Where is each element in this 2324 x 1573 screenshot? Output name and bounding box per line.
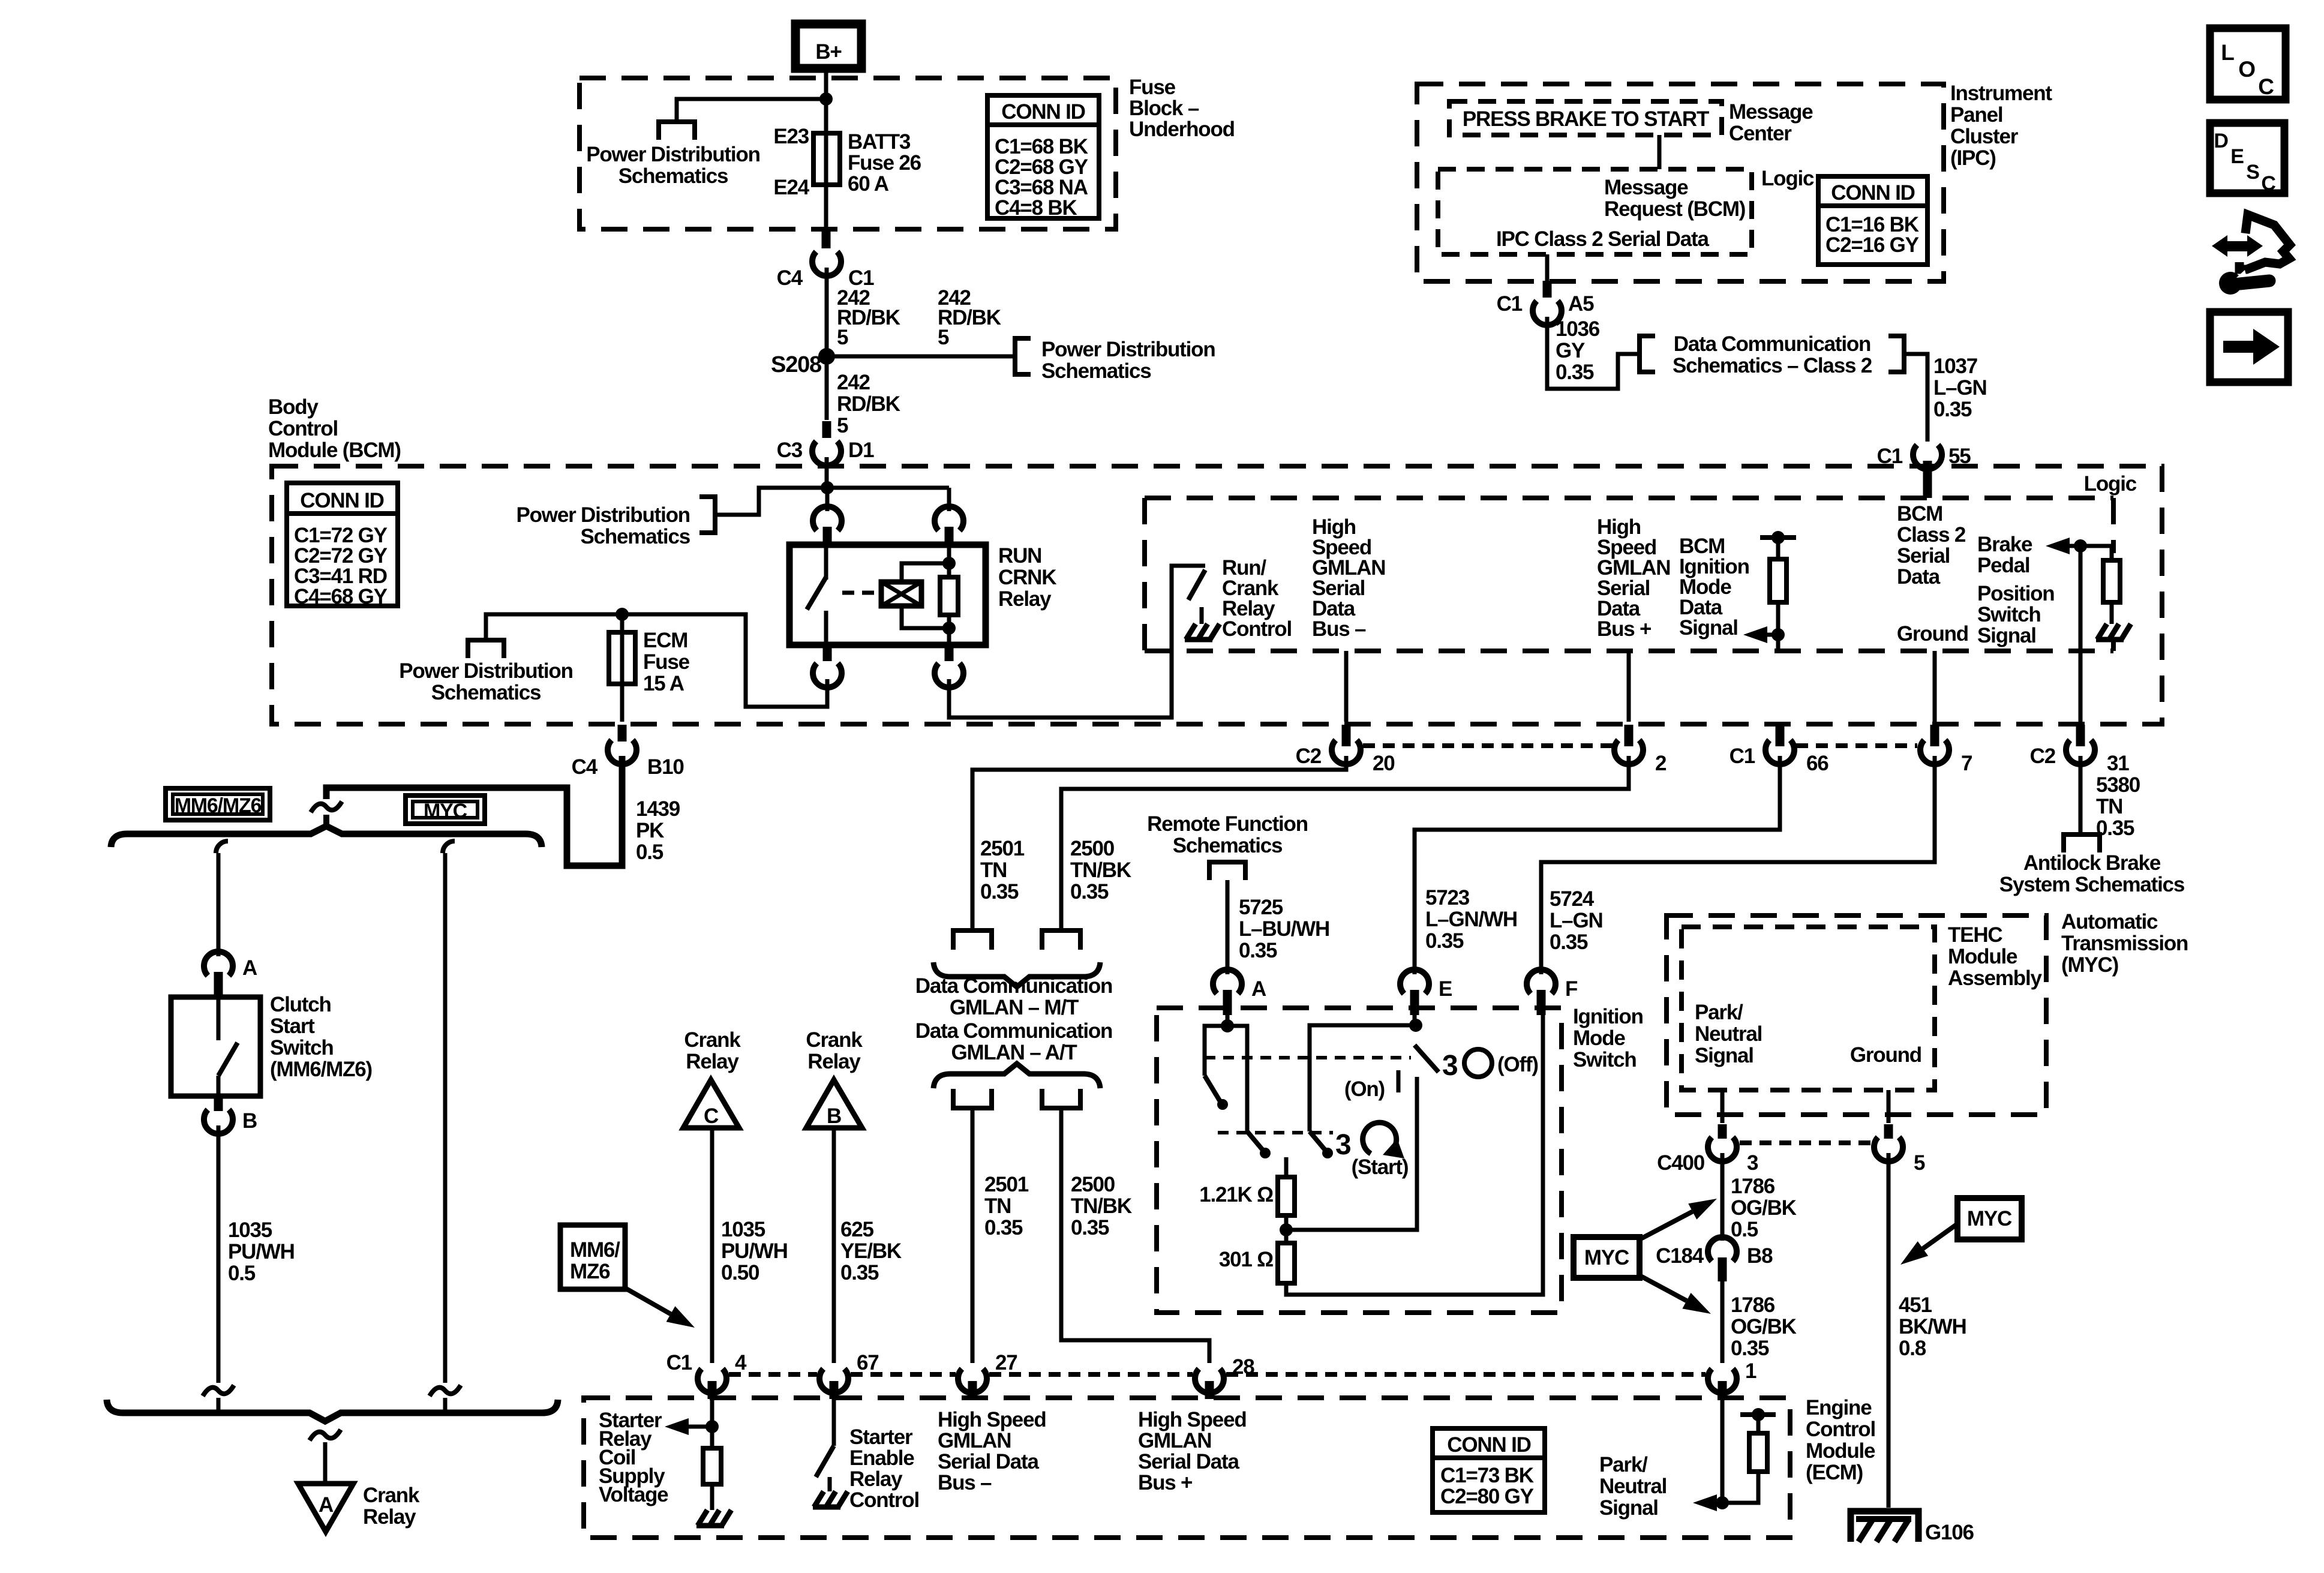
svg-text:Schematics: Schematics bbox=[431, 681, 541, 704]
svg-text:High Speed: High Speed bbox=[938, 1408, 1046, 1431]
svg-text:Power Distribution: Power Distribution bbox=[1041, 338, 1215, 361]
svg-text:15 A: 15 A bbox=[643, 672, 684, 695]
svg-text:C4=68 GY: C4=68 GY bbox=[294, 585, 388, 608]
svg-text:Panel: Panel bbox=[1950, 103, 2002, 127]
svg-text:Data Communication: Data Communication bbox=[1674, 332, 1870, 356]
svg-text:(MYC): (MYC) bbox=[2061, 953, 2118, 977]
svg-text:Signal: Signal bbox=[1679, 616, 1738, 640]
svg-text:Mode: Mode bbox=[1573, 1026, 1625, 1050]
svg-text:Automatic: Automatic bbox=[2061, 910, 2158, 933]
svg-text:B+: B+ bbox=[815, 40, 842, 64]
svg-text:BATT3: BATT3 bbox=[848, 130, 911, 154]
svg-text:Crank: Crank bbox=[684, 1028, 741, 1052]
svg-text:GY: GY bbox=[1556, 339, 1585, 362]
svg-text:Serial Data: Serial Data bbox=[938, 1450, 1039, 1473]
svg-text:5723: 5723 bbox=[1425, 886, 1470, 909]
svg-text:Module: Module bbox=[1806, 1439, 1875, 1463]
svg-text:C: C bbox=[2258, 74, 2274, 99]
svg-text:C2: C2 bbox=[1296, 745, 1322, 768]
svg-text:TN: TN bbox=[980, 858, 1007, 882]
svg-text:3: 3 bbox=[1442, 1050, 1458, 1082]
svg-text:Serial: Serial bbox=[1897, 544, 1950, 568]
svg-text:1.21K Ω: 1.21K Ω bbox=[1199, 1183, 1273, 1206]
svg-text:0.5: 0.5 bbox=[1731, 1218, 1758, 1241]
svg-text:A: A bbox=[1251, 977, 1266, 1001]
svg-text:(IPC): (IPC) bbox=[1950, 146, 1996, 170]
svg-text:Remote Function: Remote Function bbox=[1147, 812, 1308, 836]
svg-text:S208: S208 bbox=[771, 352, 821, 377]
svg-text:0.5: 0.5 bbox=[228, 1262, 256, 1285]
svg-text:0.35: 0.35 bbox=[1550, 930, 1588, 954]
svg-text:High Speed: High Speed bbox=[1138, 1408, 1247, 1431]
svg-text:Engine: Engine bbox=[1806, 1396, 1872, 1419]
svg-text:Position: Position bbox=[1977, 582, 2054, 605]
svg-text:ECM: ECM bbox=[643, 629, 687, 652]
svg-text:Bus +: Bus + bbox=[1138, 1471, 1193, 1494]
svg-text:242: 242 bbox=[837, 371, 870, 394]
svg-text:Data Communication: Data Communication bbox=[915, 1019, 1112, 1043]
svg-text:TN/BK: TN/BK bbox=[1071, 1194, 1132, 1218]
svg-text:7: 7 bbox=[1961, 752, 1972, 775]
svg-text:0.8: 0.8 bbox=[1899, 1337, 1926, 1360]
svg-text:0.35: 0.35 bbox=[1425, 929, 1464, 953]
svg-text:Ground: Ground bbox=[1850, 1043, 1921, 1067]
svg-text:1786: 1786 bbox=[1731, 1293, 1775, 1317]
svg-text:RD/BK: RD/BK bbox=[837, 392, 900, 416]
svg-text:0.35: 0.35 bbox=[984, 1216, 1023, 1239]
svg-text:TN: TN bbox=[984, 1194, 1011, 1218]
svg-text:C1: C1 bbox=[1730, 745, 1755, 768]
svg-text:0.35: 0.35 bbox=[1933, 398, 1972, 421]
svg-text:C4: C4 bbox=[572, 755, 598, 779]
svg-text:Message: Message bbox=[1729, 100, 1813, 124]
svg-text:CONN ID: CONN ID bbox=[1447, 1433, 1530, 1457]
svg-text:67: 67 bbox=[857, 1351, 879, 1374]
svg-text:Data: Data bbox=[1897, 565, 1941, 589]
svg-text:Center: Center bbox=[1729, 122, 1792, 145]
svg-text:Crank: Crank bbox=[806, 1028, 863, 1052]
svg-text:Schematics: Schematics bbox=[618, 164, 728, 188]
svg-text:1439: 1439 bbox=[636, 797, 680, 821]
svg-text:Control: Control bbox=[849, 1488, 919, 1512]
svg-text:YE/BK: YE/BK bbox=[840, 1239, 902, 1263]
svg-text:D: D bbox=[2214, 130, 2228, 152]
svg-text:Instrument: Instrument bbox=[1950, 82, 2052, 105]
svg-text:5: 5 bbox=[837, 326, 848, 349]
svg-text:B10: B10 bbox=[647, 755, 684, 779]
svg-text:A: A bbox=[242, 956, 257, 980]
svg-text:BK/WH: BK/WH bbox=[1899, 1315, 1966, 1338]
svg-text:2: 2 bbox=[1655, 752, 1667, 775]
svg-text:C: C bbox=[2261, 172, 2275, 195]
svg-text:5725: 5725 bbox=[1239, 896, 1283, 919]
svg-text:BCM: BCM bbox=[1897, 502, 1942, 526]
svg-text:Data Communication: Data Communication bbox=[915, 974, 1112, 998]
svg-text:5380: 5380 bbox=[2096, 773, 2140, 797]
svg-text:1: 1 bbox=[1745, 1359, 1756, 1383]
svg-text:0.35: 0.35 bbox=[1239, 939, 1277, 962]
svg-text:PU/WH: PU/WH bbox=[721, 1239, 788, 1263]
svg-text:Control: Control bbox=[1806, 1418, 1875, 1441]
svg-text:CONN ID: CONN ID bbox=[1831, 181, 1914, 205]
svg-text:E: E bbox=[1439, 977, 1452, 1001]
svg-text:C184: C184 bbox=[1656, 1244, 1704, 1268]
svg-text:0.35: 0.35 bbox=[980, 880, 1019, 903]
svg-text:451: 451 bbox=[1899, 1293, 1932, 1317]
svg-text:IPC Class 2 Serial Data: IPC Class 2 Serial Data bbox=[1496, 227, 1709, 251]
svg-text:Ground: Ground bbox=[1897, 622, 1968, 646]
svg-text:0.35: 0.35 bbox=[1070, 880, 1109, 903]
svg-text:5: 5 bbox=[1914, 1151, 1925, 1175]
svg-text:Antilock Brake: Antilock Brake bbox=[2023, 851, 2161, 875]
svg-text:4: 4 bbox=[735, 1351, 747, 1374]
svg-text:Fuse: Fuse bbox=[643, 650, 690, 674]
svg-text:Bus –: Bus – bbox=[938, 1471, 992, 1494]
svg-text:GMLAN – M/T: GMLAN – M/T bbox=[950, 996, 1079, 1019]
svg-text:Logic: Logic bbox=[1761, 167, 1814, 190]
svg-text:20: 20 bbox=[1373, 752, 1395, 775]
svg-text:Schematics: Schematics bbox=[1041, 359, 1151, 383]
svg-text:Switch: Switch bbox=[1573, 1048, 1637, 1071]
svg-text:C1=73 BK: C1=73 BK bbox=[1440, 1464, 1534, 1487]
svg-text:L: L bbox=[2221, 40, 2234, 65]
svg-text:2501: 2501 bbox=[980, 837, 1025, 860]
svg-text:RUN: RUN bbox=[998, 544, 1041, 568]
svg-text:C1: C1 bbox=[666, 1351, 692, 1374]
svg-text:Switch: Switch bbox=[270, 1036, 334, 1059]
svg-text:Module (BCM): Module (BCM) bbox=[268, 439, 401, 462]
svg-text:Control: Control bbox=[1222, 617, 1292, 641]
svg-text:Signal: Signal bbox=[1599, 1496, 1658, 1520]
svg-text:(Start): (Start) bbox=[1352, 1155, 1409, 1179]
svg-text:Park/: Park/ bbox=[1695, 1001, 1743, 1024]
svg-text:66: 66 bbox=[1806, 752, 1828, 775]
svg-text:B: B bbox=[827, 1104, 841, 1128]
svg-text:MYC: MYC bbox=[1967, 1207, 2012, 1230]
svg-text:Module: Module bbox=[1948, 945, 2017, 968]
svg-text:Relay: Relay bbox=[686, 1050, 739, 1073]
svg-text:TEHC: TEHC bbox=[1948, 923, 2002, 947]
svg-text:Starter: Starter bbox=[849, 1425, 913, 1449]
svg-text:L–GN/WH: L–GN/WH bbox=[1425, 908, 1517, 931]
svg-text:L–BU/WH: L–BU/WH bbox=[1239, 917, 1329, 941]
svg-text:Start: Start bbox=[270, 1014, 315, 1038]
svg-text:A5: A5 bbox=[1568, 292, 1594, 316]
svg-text:E24: E24 bbox=[773, 176, 809, 199]
svg-text:PK: PK bbox=[636, 819, 664, 842]
svg-text:27: 27 bbox=[995, 1351, 1017, 1374]
svg-text:5: 5 bbox=[938, 326, 949, 349]
svg-text:3: 3 bbox=[1335, 1129, 1351, 1161]
svg-text:CRNK: CRNK bbox=[998, 566, 1056, 589]
svg-text:1035: 1035 bbox=[228, 1218, 272, 1242]
svg-text:OG/BK: OG/BK bbox=[1731, 1196, 1797, 1220]
svg-text:O: O bbox=[2238, 57, 2255, 82]
svg-text:Relay: Relay bbox=[998, 587, 1052, 611]
svg-text:C3: C3 bbox=[777, 439, 803, 462]
svg-text:0.35: 0.35 bbox=[1071, 1216, 1109, 1239]
svg-text:Relay: Relay bbox=[363, 1505, 416, 1529]
svg-text:2500: 2500 bbox=[1070, 837, 1115, 860]
svg-text:Class 2: Class 2 bbox=[1897, 523, 1966, 547]
svg-text:Schematics – Class 2: Schematics – Class 2 bbox=[1673, 354, 1872, 377]
svg-text:0.35: 0.35 bbox=[840, 1261, 879, 1284]
svg-text:Brake: Brake bbox=[1977, 533, 2032, 556]
svg-text:Switch: Switch bbox=[1977, 603, 2041, 626]
svg-text:1037: 1037 bbox=[1933, 355, 1977, 378]
svg-text:3: 3 bbox=[1747, 1151, 1758, 1175]
svg-text:Signal: Signal bbox=[1977, 624, 2036, 647]
svg-text:Fuse: Fuse bbox=[1129, 76, 1176, 99]
svg-text:Relay: Relay bbox=[807, 1050, 861, 1073]
svg-text:TN: TN bbox=[2096, 795, 2122, 818]
svg-text:Enable: Enable bbox=[849, 1446, 914, 1470]
svg-text:PRESS BRAKE TO START: PRESS BRAKE TO START bbox=[1463, 107, 1709, 131]
svg-text:(On): (On) bbox=[1344, 1077, 1385, 1101]
svg-text:0.35: 0.35 bbox=[1731, 1337, 1769, 1360]
svg-text:Schematics: Schematics bbox=[580, 525, 690, 548]
svg-text:Serial Data: Serial Data bbox=[1138, 1450, 1239, 1473]
svg-text:PU/WH: PU/WH bbox=[228, 1240, 295, 1263]
svg-text:L–GN: L–GN bbox=[1550, 909, 1603, 932]
svg-text:Block –: Block – bbox=[1129, 97, 1199, 120]
svg-text:C2=16 GY: C2=16 GY bbox=[1825, 233, 1919, 257]
svg-text:Schematics: Schematics bbox=[1173, 834, 1283, 857]
svg-text:GMLAN: GMLAN bbox=[938, 1429, 1011, 1452]
svg-text:S: S bbox=[2246, 161, 2259, 184]
svg-text:C: C bbox=[704, 1104, 719, 1128]
svg-text:C4=8 BK: C4=8 BK bbox=[995, 196, 1077, 220]
svg-text:C2: C2 bbox=[2030, 745, 2056, 768]
svg-text:Assembly: Assembly bbox=[1948, 966, 2042, 990]
svg-text:System Schematics: System Schematics bbox=[1999, 873, 2185, 896]
svg-text:F: F bbox=[1565, 977, 1578, 1001]
svg-text:OG/BK: OG/BK bbox=[1731, 1315, 1797, 1338]
svg-text:5: 5 bbox=[837, 414, 848, 437]
svg-text:(Off): (Off) bbox=[1497, 1053, 1538, 1076]
svg-text:B: B bbox=[242, 1109, 257, 1133]
svg-text:Relay: Relay bbox=[849, 1467, 903, 1491]
svg-text:1035: 1035 bbox=[721, 1218, 765, 1241]
svg-text:Power Distribution: Power Distribution bbox=[516, 503, 690, 527]
svg-text:Bus –: Bus – bbox=[1312, 617, 1366, 641]
svg-text:Neutral: Neutral bbox=[1599, 1475, 1667, 1498]
svg-text:Control: Control bbox=[268, 417, 338, 440]
svg-text:0.50: 0.50 bbox=[721, 1261, 759, 1284]
svg-text:(ECM): (ECM) bbox=[1806, 1461, 1863, 1484]
svg-text:GMLAN – A/T: GMLAN – A/T bbox=[951, 1041, 1077, 1064]
svg-text:Neutral: Neutral bbox=[1695, 1022, 1762, 1046]
svg-text:Ignition: Ignition bbox=[1573, 1005, 1643, 1028]
svg-text:Logic: Logic bbox=[2084, 472, 2137, 496]
svg-text:Body: Body bbox=[268, 395, 319, 419]
svg-text:2500: 2500 bbox=[1071, 1173, 1115, 1196]
svg-text:(MM6/MZ6): (MM6/MZ6) bbox=[270, 1058, 372, 1081]
svg-text:Power Distribution: Power Distribution bbox=[399, 659, 573, 683]
svg-text:CONN ID: CONN ID bbox=[300, 489, 383, 512]
svg-text:Bus +: Bus + bbox=[1597, 617, 1652, 641]
svg-text:E: E bbox=[2230, 145, 2244, 168]
svg-text:60 A: 60 A bbox=[848, 172, 889, 196]
svg-text:1786: 1786 bbox=[1731, 1175, 1775, 1198]
svg-text:CONN ID: CONN ID bbox=[1001, 100, 1085, 124]
svg-text:Crank: Crank bbox=[363, 1484, 420, 1507]
svg-text:MM6/: MM6/ bbox=[570, 1238, 620, 1262]
svg-text:0.35: 0.35 bbox=[1556, 361, 1594, 384]
svg-text:C400: C400 bbox=[1657, 1151, 1705, 1175]
svg-text:Signal: Signal bbox=[1695, 1044, 1753, 1067]
svg-text:B8: B8 bbox=[1747, 1244, 1773, 1268]
svg-text:1036: 1036 bbox=[1556, 317, 1600, 341]
svg-text:0.5: 0.5 bbox=[636, 840, 663, 864]
svg-text:C4: C4 bbox=[777, 266, 803, 290]
svg-text:Voltage: Voltage bbox=[599, 1483, 668, 1506]
svg-text:C2=80 GY: C2=80 GY bbox=[1440, 1485, 1534, 1508]
svg-text:E23: E23 bbox=[773, 125, 809, 148]
svg-text:Park/: Park/ bbox=[1599, 1453, 1648, 1476]
svg-text:Request (BCM): Request (BCM) bbox=[1604, 197, 1745, 221]
svg-text:31: 31 bbox=[2107, 752, 2129, 775]
svg-text:G106: G106 bbox=[1925, 1521, 1974, 1544]
svg-text:301 Ω: 301 Ω bbox=[1219, 1248, 1273, 1271]
svg-text:Fuse 26: Fuse 26 bbox=[848, 151, 921, 175]
svg-text:A: A bbox=[319, 1493, 334, 1517]
svg-text:TN/BK: TN/BK bbox=[1070, 858, 1131, 882]
svg-text:Pedal: Pedal bbox=[1977, 554, 2029, 577]
svg-text:Transmission: Transmission bbox=[2061, 932, 2188, 955]
svg-text:2501: 2501 bbox=[984, 1173, 1029, 1196]
svg-text:D1: D1 bbox=[848, 439, 874, 462]
svg-text:625: 625 bbox=[840, 1218, 874, 1241]
svg-text:Clutch: Clutch bbox=[270, 993, 331, 1016]
svg-text:Cluster: Cluster bbox=[1950, 125, 2019, 148]
svg-text:MYC: MYC bbox=[424, 800, 467, 822]
svg-text:MM6/MZ6: MM6/MZ6 bbox=[175, 794, 262, 817]
svg-text:Power Distribution: Power Distribution bbox=[586, 143, 760, 166]
svg-text:MZ6: MZ6 bbox=[570, 1260, 610, 1283]
svg-text:MYC: MYC bbox=[1584, 1246, 1629, 1269]
svg-text:L–GN: L–GN bbox=[1933, 376, 1987, 400]
svg-text:C1: C1 bbox=[1497, 292, 1523, 316]
svg-text:Message: Message bbox=[1604, 176, 1688, 199]
svg-text:Underhood: Underhood bbox=[1129, 118, 1235, 141]
svg-text:GMLAN: GMLAN bbox=[1138, 1429, 1211, 1452]
svg-text:5724: 5724 bbox=[1550, 887, 1595, 911]
